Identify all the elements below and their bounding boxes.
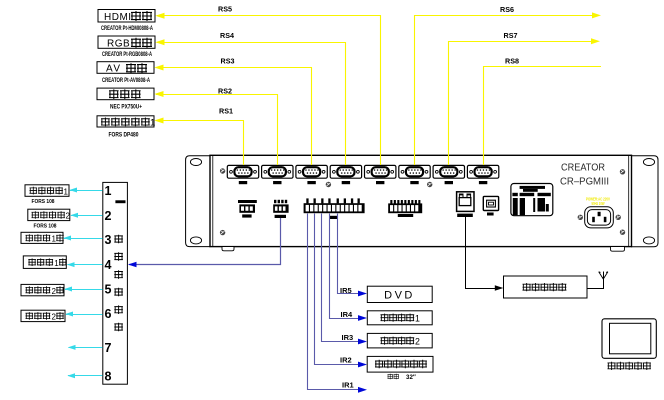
box timing power 2: [28, 209, 70, 220]
left device boxes: [21, 185, 70, 322]
arrowhead RS4: [155, 39, 164, 45]
screw face 5: [620, 169, 625, 174]
wire IR2: [315, 214, 360, 365]
DB9 connector 7: [433, 165, 464, 184]
screw IEC left: [578, 215, 583, 220]
arrowhead relay 3: [63, 236, 71, 241]
svg-text:1: 1: [52, 235, 57, 244]
arrowhead relay 7: [68, 345, 76, 350]
arrowhead RS6: [592, 12, 601, 18]
DB9 connector 5: [365, 165, 396, 184]
label audio processor 1: [101, 118, 155, 129]
wire relay 1: [70, 190, 103, 192]
RS labels: [218, 5, 519, 116]
box HDMI matrix: [98, 10, 155, 23]
svg-text:1: 1: [415, 314, 420, 324]
label HDMI matrix: [104, 11, 152, 23]
arrowhead relay 2: [70, 213, 78, 218]
svg-text:RS8: RS8: [505, 56, 519, 65]
DB9 connector 1: [227, 165, 258, 184]
svg-text:IR3: IR3: [342, 333, 354, 342]
svg-text:4: 4: [105, 258, 112, 272]
terminal block B: [273, 200, 288, 218]
wire relay 8: [68, 375, 103, 377]
svg-text:CR–PGMIII: CR–PGMIII: [560, 177, 609, 188]
svg-text:2: 2: [52, 313, 57, 322]
DB9 connector 2: [262, 165, 293, 184]
wire relay 4: [68, 264, 103, 266]
terminal block C: [304, 198, 365, 219]
box DVD: [367, 286, 432, 302]
svg-text:5: 5: [105, 283, 112, 297]
arrowhead IR3: [358, 339, 367, 345]
rack foot left: [222, 247, 234, 251]
sublabel brand 32": [388, 374, 416, 381]
svg-text:NEC PX750U+: NEC PX750U+: [110, 103, 142, 110]
svg-text:RS4: RS4: [220, 31, 234, 40]
label AV matrix: [106, 63, 147, 74]
svg-text:FORS 108: FORS 108: [32, 199, 56, 205]
svg-text:IR4: IR4: [341, 310, 354, 319]
svg-text:8: 8: [105, 369, 112, 383]
screw face 6: [620, 230, 625, 235]
label screen2 up: [26, 286, 64, 296]
box screen1 down: [23, 256, 66, 269]
svg-text:FORS DP480: FORS DP480: [109, 132, 139, 139]
wire RS7: [449, 42, 595, 166]
svg-text:AV: AV: [106, 64, 122, 75]
arrowhead IR5: [358, 291, 367, 297]
box wireless router: [504, 276, 588, 298]
box LCD TV 1: [367, 311, 432, 325]
wire RS4: [157, 43, 346, 166]
arrowhead IR4: [358, 315, 367, 321]
arrowhead relay feed: [128, 262, 137, 267]
rack left ear: [186, 156, 210, 247]
wire IR1: [308, 214, 360, 390]
label screen2 down: [26, 312, 64, 322]
label RGB matrix: [107, 38, 152, 50]
relay box minus bar: [115, 200, 125, 203]
arrowhead router: [495, 285, 504, 290]
antenna symbol: [599, 272, 608, 279]
svg-text:CREATOR Pt-AV0808-A: CREATOR Pt-AV0808-A: [102, 77, 150, 84]
box timing power 1: [25, 185, 69, 197]
label wireless router: [523, 283, 567, 291]
screw face 2: [220, 230, 225, 235]
arrowhead IR2: [358, 362, 367, 368]
svg-text:IR5: IR5: [340, 286, 352, 295]
box RGB matrix: [98, 36, 155, 48]
terminal block A: [238, 200, 257, 218]
label timing power 1: [30, 187, 69, 197]
wire IR4: [330, 214, 360, 319]
relay feed wire from rack: [129, 218, 281, 265]
box LCD TV 2: [367, 333, 432, 348]
arrowhead relay 6: [65, 312, 73, 317]
wire relay 2: [71, 215, 103, 217]
arrowhead relay 5: [64, 287, 72, 292]
svg-text:1: 1: [105, 184, 112, 198]
DB9 connector 6: [399, 165, 430, 184]
relay output block: [511, 184, 553, 216]
DB9 connector 4: [330, 165, 361, 184]
rack left flange line: [212, 155, 214, 246]
box screen2 up: [21, 284, 64, 295]
svg-text:RS7: RS7: [504, 31, 518, 40]
svg-text:1: 1: [150, 118, 155, 129]
box projector: [97, 88, 154, 100]
arrowhead relay 8: [67, 373, 75, 378]
svg-text:2: 2: [52, 287, 57, 296]
svg-text:1: 1: [54, 259, 59, 268]
wire RS1: [156, 121, 244, 166]
svg-text:CREATOR Pt-HDMI0808-A: CREATOR Pt-HDMI0808-A: [101, 25, 153, 32]
DB9 connector 3: [296, 165, 327, 184]
svg-text:RS6: RS6: [500, 5, 514, 14]
svg-text:IR2: IR2: [340, 355, 352, 364]
svg-text:RS1: RS1: [219, 107, 233, 116]
wire RS8: [484, 67, 602, 166]
svg-text:7: 7: [105, 341, 112, 355]
arrowhead RS2: [154, 91, 163, 97]
wire RS2: [156, 95, 278, 166]
USB port: [483, 196, 498, 215]
wireless touch screen: [602, 319, 656, 359]
arrowhead relay 4: [67, 262, 75, 267]
svg-text:HDMI: HDMI: [104, 12, 132, 23]
label timing power 2: [32, 211, 71, 221]
relay box vertical caption: [114, 235, 123, 332]
svg-text:DVD: DVD: [384, 290, 415, 302]
wire RS5: [157, 16, 381, 166]
svg-text:RS3: RS3: [221, 57, 235, 66]
svg-text:FORS 108: FORS 108: [34, 223, 58, 229]
arrowhead relay 1: [69, 188, 77, 193]
box screen2 down: [21, 310, 65, 321]
svg-text:1: 1: [64, 187, 69, 196]
label LCD TV 1: [381, 314, 421, 324]
arrowhead RS1: [154, 118, 163, 124]
IEC power inlet: [585, 207, 614, 228]
arrowhead IR1: [358, 387, 367, 393]
rack right ear: [632, 156, 659, 247]
box audio processor 1: [97, 116, 154, 127]
svg-text:IR1: IR1: [342, 380, 354, 389]
screw face 3: [326, 182, 331, 187]
screw face 4: [427, 182, 432, 187]
svg-text:6: 6: [105, 307, 112, 321]
rack right flange line: [628, 155, 630, 246]
DB9 connector 8: [467, 165, 498, 184]
wire relay 5: [65, 289, 103, 291]
rack foot right: [611, 247, 625, 252]
svg-text:2: 2: [105, 209, 112, 223]
wire RS6: [415, 16, 596, 166]
rack body: [210, 155, 632, 246]
box AV matrix: [97, 62, 154, 74]
svg-text:50Hz 10W: 50Hz 10W: [592, 201, 605, 206]
RJ45 LAN port: [457, 192, 474, 217]
wire relay 7: [69, 347, 103, 349]
svg-text:CREATOR Pt-RGB0808-A: CREATOR Pt-RGB0808-A: [102, 51, 152, 58]
svg-text:3: 3: [105, 233, 112, 247]
label LCD TV 2: [381, 337, 421, 347]
wire IR5: [338, 214, 360, 294]
box monitor TV: [367, 356, 433, 372]
screw face 1: [220, 168, 225, 173]
LAN wire to router: [466, 217, 496, 289]
svg-text:RS5: RS5: [218, 5, 232, 14]
wire RS3: [156, 68, 312, 166]
terminal block D: [388, 200, 422, 217]
svg-text:RGB: RGB: [107, 39, 130, 50]
arrowhead RS7: [591, 38, 600, 44]
wire relay 3: [64, 238, 103, 240]
svg-text:2: 2: [66, 212, 71, 221]
wire relay 6: [66, 314, 103, 316]
label screen1 down: [28, 258, 66, 268]
box screen1 up: [21, 232, 63, 243]
svg-text:CREATOR: CREATOR: [561, 163, 605, 174]
label wireless touch screen: [608, 362, 651, 370]
antenna wire: [587, 272, 604, 289]
label monitor TV: [375, 360, 427, 368]
label projector: [109, 89, 141, 99]
arrowhead RS5: [155, 13, 164, 19]
wire IR3: [322, 214, 360, 342]
svg-text:2: 2: [415, 337, 420, 347]
cyan relay wires: [64, 191, 103, 376]
screw IEC right: [616, 215, 621, 220]
arrowhead RS3: [154, 65, 163, 71]
relay box outline: [103, 182, 128, 384]
AV device boxes: [367, 286, 433, 372]
svg-text:32″: 32″: [406, 374, 416, 381]
label screen1 up: [26, 234, 64, 244]
